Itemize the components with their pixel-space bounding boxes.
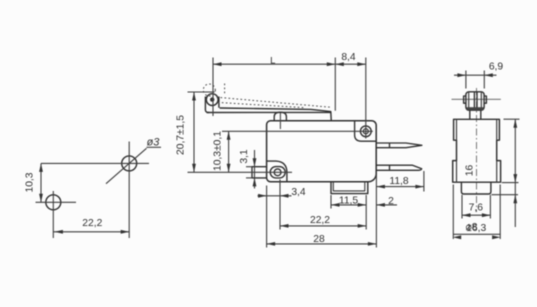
svg-text:16,3: 16,3 — [466, 223, 486, 234]
svg-text:20,7±1,5: 20,7±1,5 — [176, 115, 187, 155]
svg-text:11,5: 11,5 — [339, 196, 359, 207]
svg-text:7,6: 7,6 — [469, 202, 484, 213]
svg-text:2: 2 — [388, 196, 394, 207]
svg-text:6,9: 6,9 — [489, 62, 504, 73]
svg-text:10,3±0,1: 10,3±0,1 — [212, 131, 223, 171]
svg-text:22,2: 22,2 — [310, 215, 330, 226]
svg-text:3,1: 3,1 — [239, 149, 250, 164]
svg-text:L: L — [270, 56, 275, 67]
svg-text:8,4: 8,4 — [341, 52, 356, 63]
svg-text:ø3: ø3 — [147, 136, 161, 148]
svg-text:10,3: 10,3 — [24, 172, 35, 192]
svg-text:22,2: 22,2 — [82, 218, 102, 229]
svg-text:3,4: 3,4 — [291, 187, 306, 198]
svg-text:28: 28 — [313, 234, 325, 245]
svg-text:16: 16 — [465, 165, 476, 177]
svg-text:11,8: 11,8 — [389, 176, 409, 187]
